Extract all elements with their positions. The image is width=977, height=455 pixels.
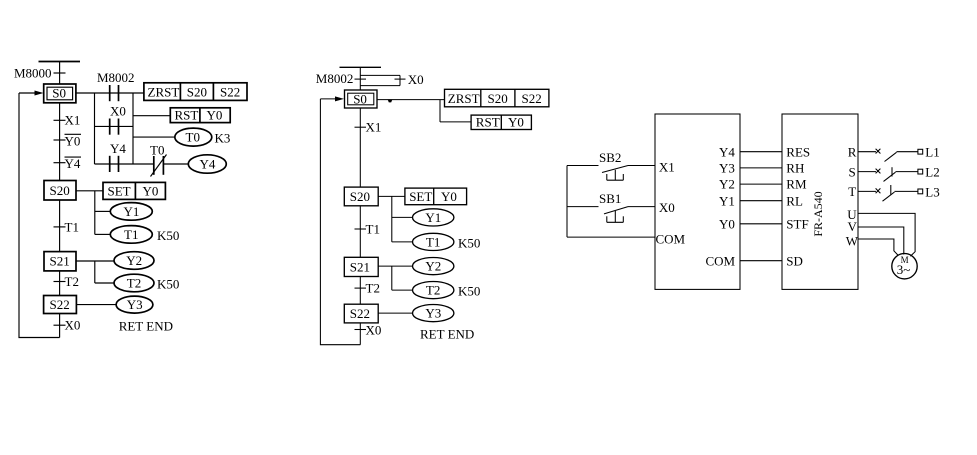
timer coil T1 — [413, 233, 454, 250]
svg-text:X0: X0 — [408, 72, 424, 87]
wire junction below SET — [391, 196, 393, 242]
wire T phase — [858, 190, 876, 192]
transition X1 tick — [355, 126, 367, 128]
svg-text:Y4: Y4 — [110, 141, 126, 156]
arrow into S0 — [320, 96, 344, 101]
svg-text:Y0: Y0 — [143, 184, 159, 199]
svg-text:T0: T0 — [150, 142, 164, 157]
wire Y0-STF — [740, 223, 782, 225]
svg-text:SET: SET — [108, 184, 131, 199]
wire trunk S0 to S20 — [59, 103, 61, 181]
wire trunk S0 to S20 — [359, 108, 361, 187]
wire S20 to SET block — [378, 195, 405, 197]
svg-text:Y0: Y0 — [207, 108, 223, 123]
svg-text:Y4: Y4 — [719, 144, 735, 159]
svg-text:S22: S22 — [50, 297, 70, 312]
svg-text:T: T — [848, 184, 856, 199]
wire V to motor — [858, 227, 904, 255]
svg-text:K3: K3 — [215, 130, 231, 145]
step S22 — [44, 296, 77, 314]
svg-text:S20: S20 — [350, 189, 370, 204]
transition M8002 tick — [355, 78, 367, 80]
coil Y2 — [114, 252, 154, 270]
svg-text:V: V — [848, 219, 858, 234]
arrowhead R — [876, 149, 881, 154]
function block RST Y0 — [471, 115, 531, 130]
wire S22 to Y3 coil — [378, 312, 412, 314]
step S20 — [44, 181, 76, 201]
wire Y1-RL — [740, 200, 782, 202]
wire trunk below S22 — [359, 323, 361, 345]
wire trunk S20 to S21 — [59, 200, 61, 252]
wire Y2-RM — [740, 183, 782, 185]
function block SET Y0 — [103, 182, 165, 199]
wire bus to SB1 — [567, 206, 599, 208]
wire to T2 coil — [95, 282, 114, 284]
wire S0 to ZRST junction — [377, 99, 445, 101]
svg-text:T0: T0 — [186, 130, 200, 145]
svg-text:X0: X0 — [65, 318, 81, 333]
label Y0 overline — [65, 133, 82, 148]
timer coil T0 — [175, 128, 212, 146]
wire branch rail — [94, 93, 96, 164]
svg-text:X0: X0 — [659, 200, 675, 215]
pushbutton SB2 — [599, 150, 628, 180]
svg-text:S22: S22 — [220, 85, 240, 100]
wire U to motor — [858, 213, 915, 256]
svg-text:RL: RL — [786, 193, 803, 208]
arrowhead toward S0 — [388, 99, 393, 102]
svg-text:T2: T2 — [127, 276, 141, 291]
svg-text:S21: S21 — [350, 260, 370, 275]
svg-text:X1: X1 — [659, 159, 675, 174]
svg-text:RET END: RET END — [420, 326, 474, 341]
PLC box — [655, 114, 740, 289]
wire COM-SD — [740, 260, 782, 262]
coil Y1 — [413, 209, 454, 226]
svg-text:X0: X0 — [110, 104, 126, 119]
coil Y1 — [110, 203, 152, 221]
svg-text:K50: K50 — [157, 228, 179, 243]
svg-text:SB1: SB1 — [599, 191, 621, 206]
wire trunk S21 to S22 — [359, 277, 361, 305]
switch blade R — [885, 152, 897, 161]
svg-text:L2: L2 — [925, 165, 939, 180]
transition X0 tick — [355, 329, 367, 331]
step S0 (initial, double box) — [44, 84, 76, 103]
transition M8000 tick — [54, 72, 66, 74]
feedback wire (left loop) — [19, 93, 60, 338]
wire to Y1 coil — [95, 210, 110, 212]
wire bus to SB2 — [567, 165, 599, 167]
wire to RST block — [133, 115, 170, 117]
svg-text:RM: RM — [786, 177, 807, 192]
left top rail — [39, 61, 81, 63]
arrow into S0 — [19, 91, 44, 96]
wire trunk S20 to S21 — [359, 206, 361, 257]
transition X1 tick — [54, 119, 66, 121]
svg-text:Y2: Y2 — [719, 177, 735, 192]
svg-text:L1: L1 — [925, 145, 939, 160]
svg-text:K50: K50 — [157, 277, 179, 292]
svg-text:Y0: Y0 — [441, 189, 457, 204]
wire junction rail — [132, 93, 134, 164]
wire SB1 to X0 — [628, 206, 655, 208]
svg-text:COM: COM — [706, 253, 736, 268]
wire to T1 coil — [95, 233, 110, 235]
function block ZRST S20 S22 — [445, 89, 549, 107]
svg-text:S20: S20 — [50, 183, 70, 198]
svg-text:STF: STF — [786, 216, 808, 231]
arrowhead T — [876, 188, 881, 193]
svg-text:ZRST: ZRST — [148, 85, 180, 100]
svg-text:Y0: Y0 — [65, 133, 81, 148]
wire S phase — [858, 171, 876, 173]
label Y4 overline — [65, 156, 82, 171]
timer coil T2 — [413, 282, 454, 299]
wire junction below S21 — [94, 261, 96, 283]
svg-text:Y1: Y1 — [124, 204, 140, 219]
svg-text:S22: S22 — [522, 91, 542, 106]
linkage tick T — [890, 185, 892, 195]
wire to Y1 coil — [392, 216, 413, 218]
wire S20 to SET block — [76, 190, 103, 192]
svg-text:R: R — [848, 144, 857, 159]
svg-text:Y2: Y2 — [425, 259, 441, 274]
svg-text:SET: SET — [409, 189, 432, 204]
wire rail to S0 — [359, 67, 361, 90]
contact X0 — [110, 104, 126, 135]
svg-text:Y3: Y3 — [425, 306, 441, 321]
switch blade S — [884, 172, 896, 181]
wire Y3-RH — [740, 167, 782, 169]
svg-text:T1: T1 — [65, 219, 79, 234]
transition X0 tick — [395, 78, 406, 80]
coil Y2 — [413, 258, 454, 275]
svg-text:S20: S20 — [187, 85, 207, 100]
contact M8002 — [97, 70, 135, 101]
svg-text:3~: 3~ — [897, 262, 911, 277]
svg-text:Y4: Y4 — [200, 157, 216, 172]
wire to L1 — [897, 151, 918, 153]
wire to T1 coil — [392, 241, 413, 243]
svg-text:Y0: Y0 — [508, 115, 524, 130]
svg-text:K50: K50 — [458, 235, 480, 250]
wire trunk S21 to S22 — [59, 271, 61, 296]
svg-text:M8002: M8002 — [97, 70, 135, 85]
function block SET Y0 — [405, 188, 467, 205]
svg-text:FR-A540: FR-A540 — [811, 191, 825, 236]
step S21 — [344, 257, 378, 276]
wire to T0 coil — [133, 136, 175, 138]
svg-text:S20: S20 — [488, 91, 508, 106]
transition X0 tick — [54, 324, 66, 326]
transition T1 tick — [355, 228, 367, 230]
terminal square L3 — [918, 189, 923, 194]
svg-text:X1: X1 — [366, 120, 382, 135]
timer coil T2 — [114, 274, 154, 292]
wire junction rail — [439, 100, 441, 122]
svg-text:COM: COM — [656, 232, 686, 247]
svg-text:Y4: Y4 — [65, 156, 81, 171]
svg-text:S22: S22 — [350, 306, 370, 321]
svg-text:RST: RST — [476, 115, 500, 130]
svg-text:Y0: Y0 — [719, 216, 735, 231]
transition T1 tick — [54, 226, 66, 228]
motor M 3~ — [892, 254, 917, 279]
svg-text:T2: T2 — [366, 281, 380, 296]
wire trunk below S22 — [59, 314, 61, 338]
svg-text:T1: T1 — [124, 227, 138, 242]
coil Y3 — [413, 305, 454, 322]
svg-text:RH: RH — [786, 161, 804, 176]
timer coil T1 — [110, 226, 152, 244]
svg-text:RET END: RET END — [119, 318, 173, 333]
wire to Y4 coil — [163, 163, 188, 165]
wire to T2 coil — [392, 289, 413, 291]
svg-text:L3: L3 — [925, 184, 939, 199]
contact Y4 — [110, 141, 127, 172]
svg-text:Y1: Y1 — [425, 210, 441, 225]
wire selection branch to X0 — [360, 75, 400, 85]
function block ZRST S20 S22 — [144, 83, 247, 101]
svg-text:SD: SD — [786, 253, 803, 268]
pushbutton SB1 — [599, 191, 628, 222]
wire to RST block — [440, 121, 471, 123]
svg-text:T2: T2 — [426, 283, 440, 298]
svg-text:S0: S0 — [353, 92, 367, 107]
wire SB2 to X1 — [628, 165, 655, 167]
transition T2 tick — [54, 281, 66, 283]
svg-text:S0: S0 — [52, 86, 66, 101]
svg-text:ZRST: ZRST — [448, 91, 480, 106]
svg-text:RST: RST — [175, 108, 199, 123]
step S0 (initial, double box) — [345, 90, 378, 108]
svg-text:T1: T1 — [426, 234, 440, 249]
svg-text:Y1: Y1 — [719, 193, 735, 208]
svg-text:X1: X1 — [65, 113, 81, 128]
arrowhead S — [876, 169, 881, 174]
step S21 — [44, 252, 76, 271]
wire bus to COM — [567, 236, 655, 238]
wire Y4 contact row — [95, 163, 154, 165]
svg-text:X0: X0 — [366, 323, 382, 338]
contact T0 normally closed — [150, 142, 167, 176]
wire rail to S0 — [59, 62, 61, 85]
function block RST Y0 — [170, 108, 230, 123]
transition NOT Y4 tick — [54, 162, 66, 164]
wire S21 to Y2 coil — [378, 265, 412, 267]
wire X0 contact row — [95, 125, 134, 127]
wire left bus — [566, 166, 568, 238]
inverter box FR-A540 — [782, 114, 858, 289]
svg-text:M8002: M8002 — [316, 71, 354, 86]
linkage tick S — [891, 167, 893, 176]
svg-text:Y3: Y3 — [719, 161, 735, 176]
svg-text:K50: K50 — [458, 284, 480, 299]
wire junction below S21 — [391, 266, 393, 290]
transition NOT Y0 tick — [54, 139, 66, 141]
svg-text:RES: RES — [786, 144, 810, 159]
svg-text:Y3: Y3 — [127, 297, 143, 312]
step S22 — [344, 304, 378, 323]
wire W to motor — [858, 239, 898, 255]
svg-text:W: W — [846, 234, 859, 249]
switch blade T — [883, 192, 895, 201]
wire to L3 — [895, 190, 918, 192]
svg-text:T1: T1 — [366, 222, 380, 237]
svg-text:Y2: Y2 — [126, 253, 142, 268]
middle top rail — [340, 66, 382, 68]
wire R phase — [858, 151, 876, 153]
feedback wire (left loop) — [320, 99, 360, 345]
terminal square L1 — [918, 149, 923, 154]
terminal square L2 — [918, 169, 923, 174]
coil Y4 — [188, 155, 226, 173]
svg-text:SB2: SB2 — [599, 150, 621, 165]
svg-text:S: S — [849, 164, 856, 179]
wire S0 to ladder branch — [76, 92, 144, 94]
wire S22 to Y3 coil — [76, 304, 116, 306]
wire to L2 — [896, 171, 918, 173]
wire S21 to Y2 coil — [76, 260, 114, 262]
coil Y3 — [116, 296, 153, 313]
svg-text:M8000: M8000 — [14, 66, 52, 81]
transition T2 tick — [355, 287, 367, 289]
svg-text:S21: S21 — [50, 254, 70, 269]
wire Y4-RES — [740, 151, 782, 153]
wire junction below SET — [94, 191, 96, 235]
step S20 — [344, 187, 378, 206]
svg-text:T2: T2 — [65, 274, 79, 289]
